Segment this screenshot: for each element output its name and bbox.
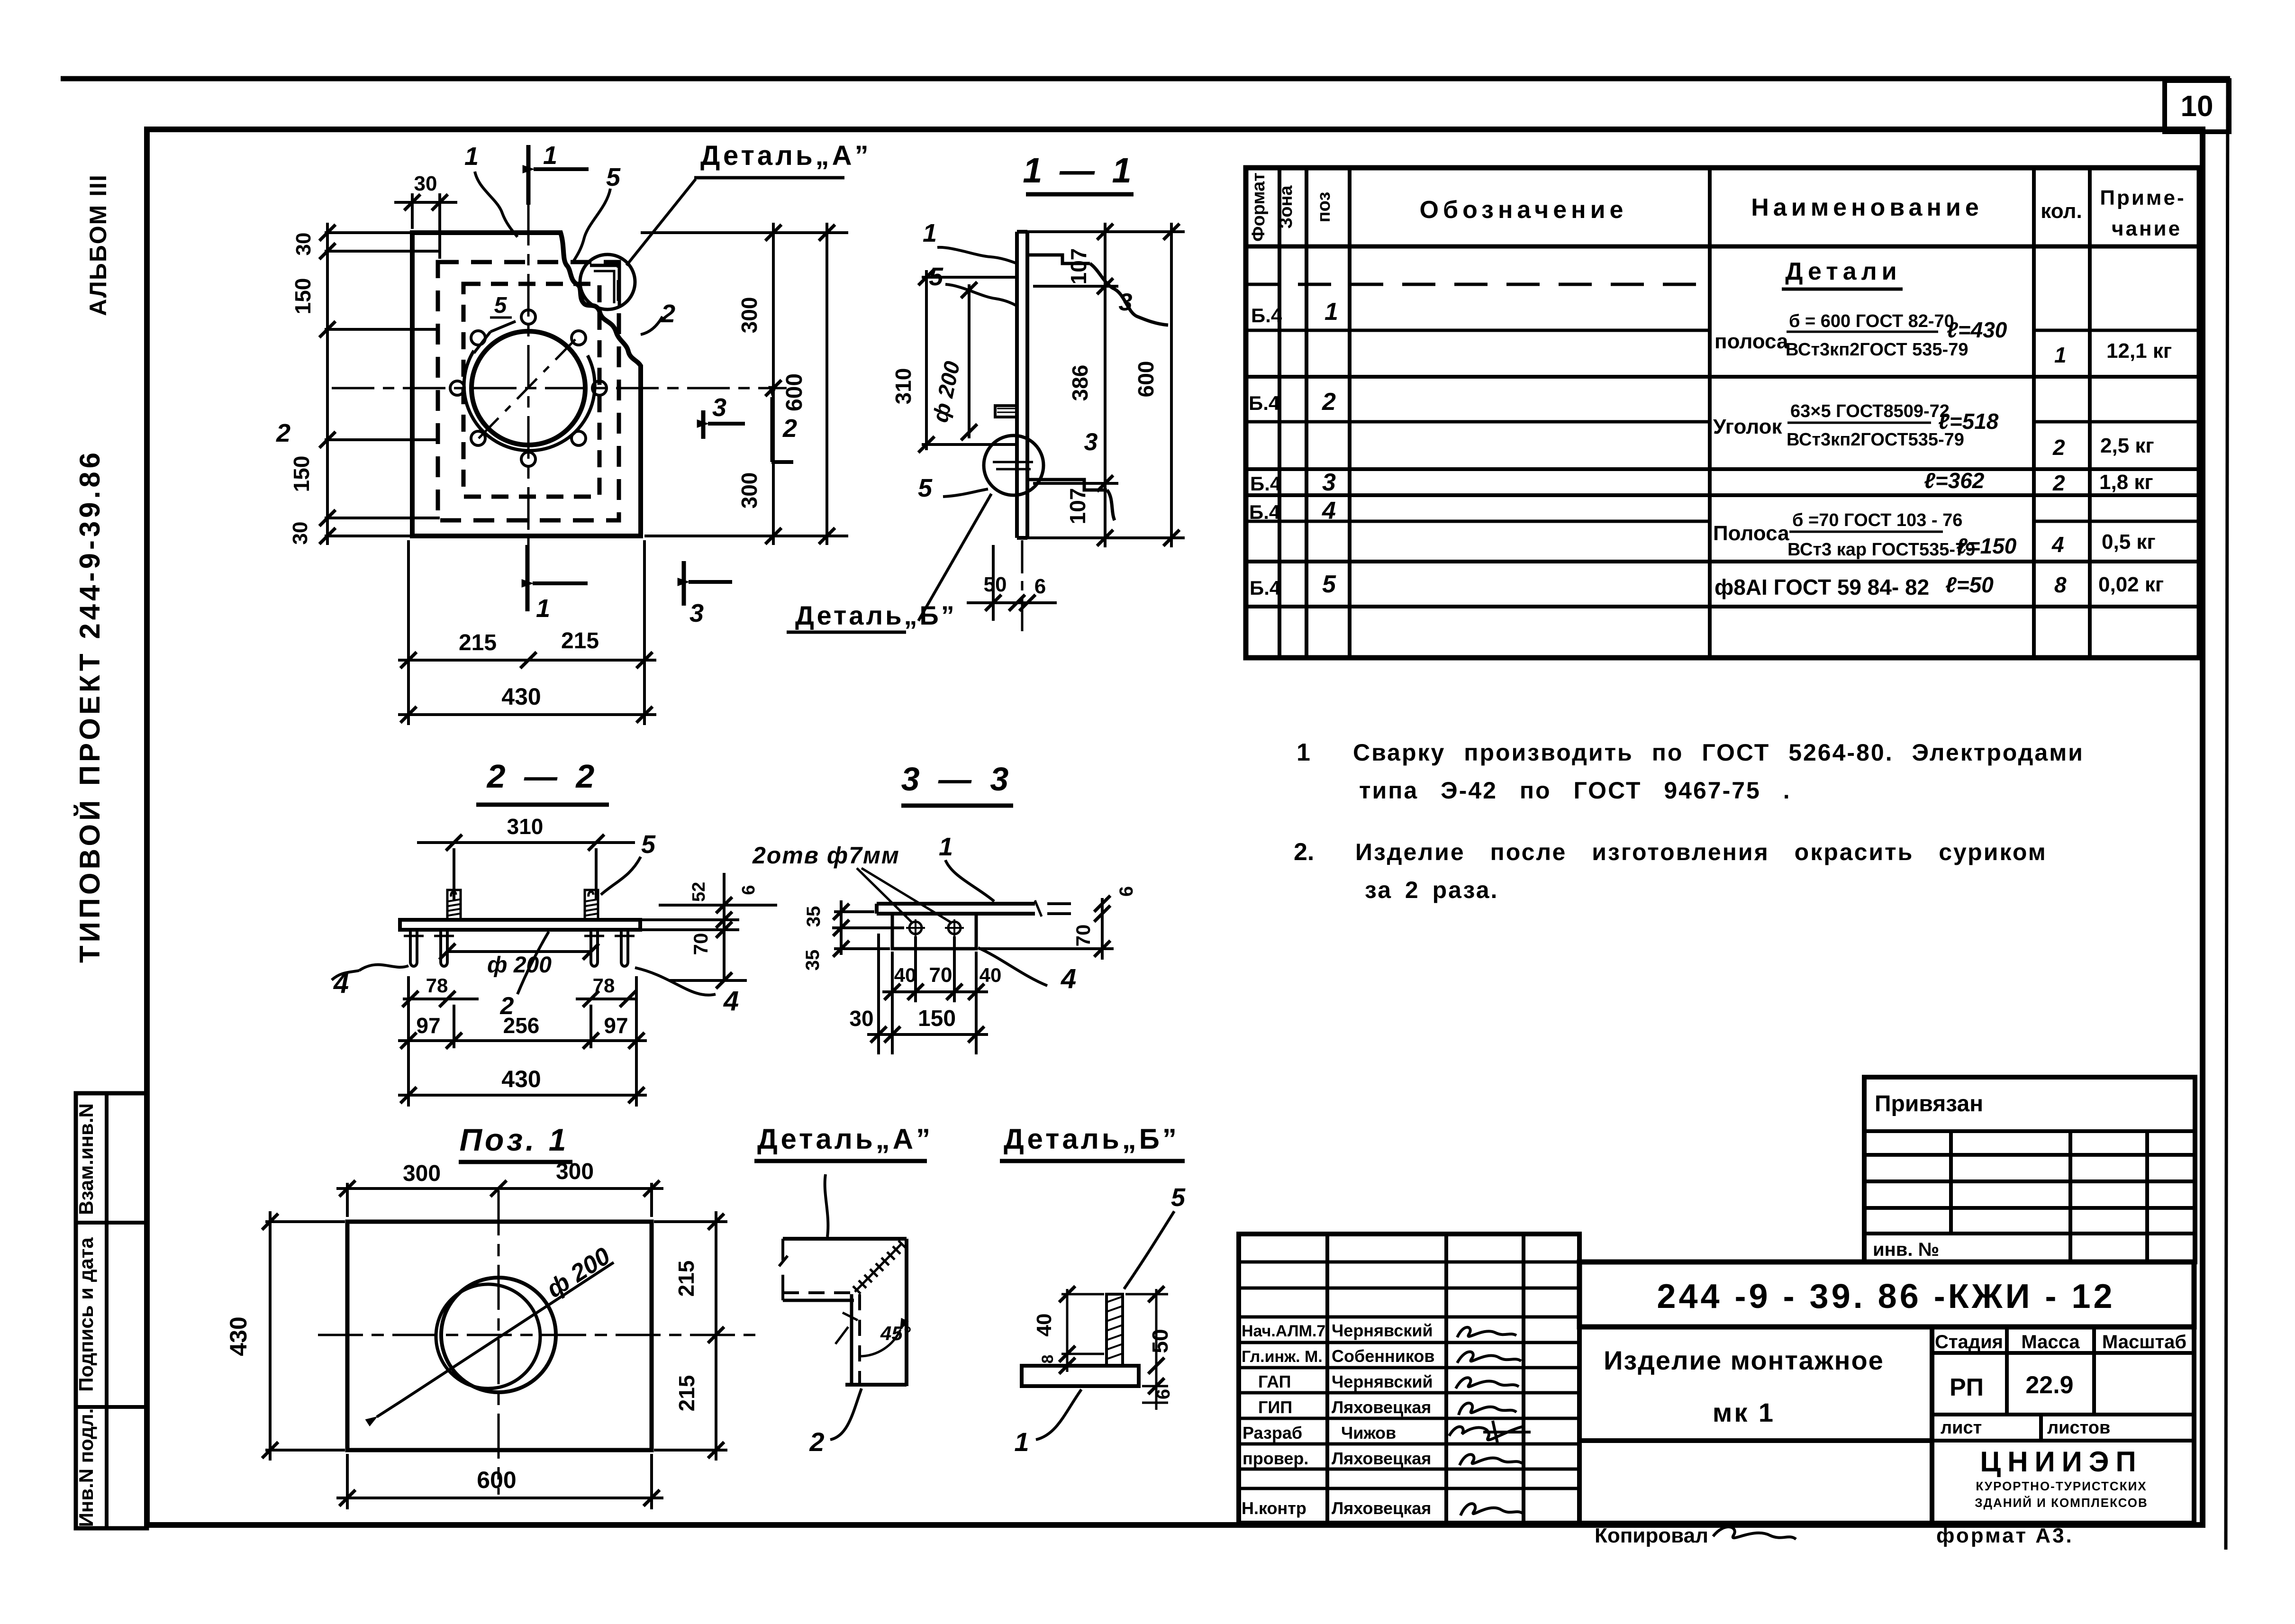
svg-text:30: 30 <box>292 233 315 256</box>
svg-text:150: 150 <box>918 1006 956 1031</box>
svg-text:310: 310 <box>891 368 916 405</box>
svg-text:Копировал: Копировал <box>1595 1524 1708 1547</box>
svg-text:мк 1: мк 1 <box>1713 1397 1775 1427</box>
svg-text:215: 215 <box>459 630 497 655</box>
svg-text:8: 8 <box>2054 572 2067 597</box>
svg-text:70: 70 <box>929 963 952 987</box>
svg-text:Собенников: Собенников <box>1332 1346 1435 1366</box>
svg-text:поз: поз <box>1314 192 1334 223</box>
svg-text:310: 310 <box>507 814 544 839</box>
svg-text:600: 600 <box>1134 361 1158 398</box>
svg-text:70: 70 <box>1072 925 1094 947</box>
svg-text:2: 2 <box>1322 388 1336 416</box>
svg-text:б =70 ГОСТ 103 - 76: б =70 ГОСТ 103 - 76 <box>1792 510 1962 530</box>
svg-text:1: 1 <box>1297 739 1310 766</box>
svg-text:430: 430 <box>501 683 541 710</box>
svg-text:Инв.N подл.: Инв.N подл. <box>75 1408 97 1527</box>
svg-text:Б.4: Б.4 <box>1250 577 1281 599</box>
svg-text:РП: РП <box>1950 1374 1984 1401</box>
svg-text:полоса: полоса <box>1714 330 1788 353</box>
svg-text:300: 300 <box>737 472 762 509</box>
svg-text:чание: чание <box>2112 217 2182 240</box>
svg-text:ф 200: ф 200 <box>487 953 552 978</box>
svg-text:1: 1 <box>1324 298 1338 326</box>
svg-text:4: 4 <box>2051 532 2064 557</box>
svg-text:215: 215 <box>674 1375 699 1412</box>
svg-text:40: 40 <box>980 964 1002 986</box>
svg-text:600: 600 <box>782 373 807 411</box>
svg-text:Б.4: Б.4 <box>1251 304 1282 327</box>
svg-text:35: 35 <box>803 906 824 927</box>
svg-text:2отв ф7мм: 2отв ф7мм <box>752 842 900 869</box>
svg-text:35: 35 <box>802 950 823 971</box>
svg-text:ГАП: ГАП <box>1258 1372 1291 1391</box>
svg-text:150: 150 <box>290 278 315 315</box>
svg-text:ℓ=362: ℓ=362 <box>1924 468 1985 493</box>
svg-text:40: 40 <box>894 964 916 986</box>
svg-text:Привязан: Привязан <box>1875 1091 1983 1116</box>
svg-text:2: 2 <box>2052 471 2065 495</box>
svg-text:Б.4: Б.4 <box>1249 392 1280 414</box>
svg-text:300: 300 <box>556 1159 594 1184</box>
svg-text:Приме-: Приме- <box>2100 186 2186 209</box>
svg-text:3 — 3: 3 — 3 <box>901 761 1014 798</box>
svg-text:12,1 кг: 12,1 кг <box>2106 339 2172 363</box>
svg-text:Ляховецкая: Ляховецкая <box>1332 1449 1431 1468</box>
svg-text:2: 2 <box>2052 435 2065 460</box>
svg-text:2.: 2. <box>1294 838 1314 866</box>
svg-text:КУРОРТНО-ТУРИСТСКИХ: КУРОРТНО-ТУРИСТСКИХ <box>1976 1479 2147 1493</box>
svg-text:386: 386 <box>1068 365 1092 401</box>
svg-text:30: 30 <box>414 172 437 195</box>
svg-text:формат А3.: формат А3. <box>1936 1524 2074 1547</box>
svg-text:Н.контр: Н.контр <box>1242 1498 1306 1518</box>
svg-text:8: 8 <box>1039 1355 1057 1364</box>
svg-text:за 2 раза.: за 2 раза. <box>1365 877 1498 903</box>
svg-text:Формат: Формат <box>1249 172 1269 242</box>
svg-text:2: 2 <box>809 1427 824 1457</box>
svg-text:ВСт3кп2ГОСТ535-79: ВСт3кп2ГОСТ535-79 <box>1787 430 1964 450</box>
svg-text:Наименование: Наименование <box>1751 194 1983 221</box>
svg-text:Ляховецкая: Ляховецкая <box>1332 1397 1431 1417</box>
svg-text:300: 300 <box>403 1161 441 1186</box>
svg-text:52: 52 <box>689 882 709 902</box>
svg-text:1: 1 <box>543 141 557 170</box>
svg-text:4: 4 <box>333 968 349 999</box>
svg-text:инв. №: инв. № <box>1873 1239 1939 1260</box>
svg-text:ℓ=50: ℓ=50 <box>1945 572 1994 597</box>
svg-text:2: 2 <box>276 419 290 447</box>
svg-text:5: 5 <box>641 830 656 859</box>
svg-text:ВСт3кп2ГОСТ 535-79: ВСт3кп2ГОСТ 535-79 <box>1786 340 1968 360</box>
svg-text:4: 4 <box>1322 497 1336 525</box>
svg-text:244 -9 - 39. 86 -КЖИ - 12: 244 -9 - 39. 86 -КЖИ - 12 <box>1657 1278 2115 1316</box>
svg-text:б = 600 ГОСТ 82-70: б = 600 ГОСТ 82-70 <box>1789 311 1954 331</box>
svg-text:1 — 1: 1 — 1 <box>1023 151 1135 190</box>
svg-text:97: 97 <box>604 1013 628 1038</box>
svg-text:2,5 кг: 2,5 кг <box>2100 434 2154 457</box>
svg-text:Поз. 1: Поз. 1 <box>460 1122 569 1157</box>
svg-text:Изделие после изготовления: Изделие после изготовления окрасить сури… <box>1355 839 2047 865</box>
svg-text:3: 3 <box>712 393 726 422</box>
svg-text:50: 50 <box>1148 1329 1172 1353</box>
svg-text:3: 3 <box>689 599 704 627</box>
svg-text:78: 78 <box>593 974 615 997</box>
svg-text:ЗДАНИЙ И КОМПЛЕКСОВ: ЗДАНИЙ И КОМПЛЕКСОВ <box>1975 1496 2148 1510</box>
svg-text:70: 70 <box>689 933 712 955</box>
svg-text:215: 215 <box>674 1261 698 1297</box>
svg-text:97: 97 <box>416 1013 440 1038</box>
svg-text:Ляховецкая: Ляховецкая <box>1332 1498 1431 1518</box>
svg-text:50: 50 <box>984 573 1007 596</box>
svg-text:30: 30 <box>849 1006 873 1031</box>
svg-text:22.9: 22.9 <box>2025 1371 2073 1399</box>
svg-text:Нач.АЛМ.7: Нач.АЛМ.7 <box>1242 1322 1325 1340</box>
svg-text:лист: лист <box>1941 1418 1982 1438</box>
svg-text:Взам.инв.N: Взам.инв.N <box>75 1103 97 1215</box>
svg-text:5: 5 <box>494 293 508 318</box>
svg-text:256: 256 <box>503 1013 540 1038</box>
svg-text:Чернявский: Чернявский <box>1332 1321 1433 1340</box>
svg-text:3: 3 <box>1119 289 1133 316</box>
svg-text:Деталь„Б”: Деталь„Б” <box>795 600 957 630</box>
svg-text:Полоса: Полоса <box>1713 522 1789 545</box>
svg-text:6: 6 <box>739 885 759 895</box>
svg-text:ГИП: ГИП <box>1258 1397 1292 1417</box>
svg-text:10: 10 <box>2181 90 2213 123</box>
svg-text:Масса: Масса <box>2021 1332 2080 1352</box>
svg-text:5: 5 <box>1322 571 1336 598</box>
svg-text:6: 6 <box>1034 575 1046 598</box>
svg-text:Гл.инж. М.: Гл.инж. М. <box>1242 1348 1323 1366</box>
svg-text:Деталь„Б”: Деталь„Б” <box>1004 1123 1179 1155</box>
svg-text:листов: листов <box>2047 1418 2110 1438</box>
svg-text:Деталь„А”: Деталь„А” <box>757 1123 933 1155</box>
svg-text:6: 6 <box>1153 1389 1174 1399</box>
svg-text:Изделие монтажное: Изделие монтажное <box>1604 1345 1884 1375</box>
svg-text:1: 1 <box>2054 343 2067 367</box>
svg-text:Детали: Детали <box>1785 258 1901 285</box>
svg-text:провер.: провер. <box>1243 1449 1308 1468</box>
svg-text:0,02 кг: 0,02 кг <box>2098 573 2164 596</box>
svg-text:ТИПОВОЙ ПРОЕКТ 244-9-39.86: ТИПОВОЙ ПРОЕКТ 244-9-39.86 <box>74 449 106 963</box>
svg-text:Чижов: Чижов <box>1341 1423 1396 1443</box>
svg-text:430: 430 <box>501 1066 541 1092</box>
svg-text:1: 1 <box>464 142 479 171</box>
svg-text:5: 5 <box>918 474 933 502</box>
svg-text:2: 2 <box>661 299 675 328</box>
svg-text:1: 1 <box>939 833 953 861</box>
svg-text:3: 3 <box>1322 469 1336 496</box>
svg-text:Разраб: Разраб <box>1243 1423 1302 1443</box>
svg-text:1: 1 <box>923 219 937 247</box>
svg-text:3: 3 <box>1084 428 1098 456</box>
svg-text:4: 4 <box>1061 963 1076 994</box>
svg-text:Сварку производить по Г: Сварку производить по ГОСТ 5264-80. Элек… <box>1353 739 2084 766</box>
svg-text:107: 107 <box>1066 248 1091 285</box>
svg-text:ℓ=150: ℓ=150 <box>1956 534 2017 558</box>
svg-text:Стадия: Стадия <box>1935 1332 2003 1352</box>
svg-text:40: 40 <box>1033 1314 1056 1337</box>
svg-text:1: 1 <box>536 594 550 623</box>
svg-text:300: 300 <box>737 297 762 334</box>
svg-text:ВСт3 кар ГОСТ535-79: ВСт3 кар ГОСТ535-79 <box>1787 540 1975 560</box>
svg-text:0,5 кг: 0,5 кг <box>2102 530 2156 553</box>
svg-text:78: 78 <box>426 974 448 997</box>
svg-text:2 — 2: 2 — 2 <box>486 758 599 795</box>
svg-text:кол.: кол. <box>2041 200 2082 223</box>
svg-text:Обозначение: Обозначение <box>1420 196 1628 224</box>
svg-text:ф8АI ГОСТ 59 84- 82: ф8АI ГОСТ 59 84- 82 <box>1714 575 1929 599</box>
svg-text:1,8 кг: 1,8 кг <box>2099 471 2153 494</box>
svg-text:типа Э-42 по ГОСТ 9467-75: типа Э-42 по ГОСТ 9467-75 . <box>1359 777 1791 804</box>
svg-text:Подпись и дата: Подпись и дата <box>75 1237 97 1392</box>
svg-text:5: 5 <box>606 163 621 191</box>
svg-text:107: 107 <box>1065 488 1090 525</box>
svg-text:Масштаб: Масштаб <box>2102 1332 2186 1352</box>
svg-text:ЦНИИЭП: ЦНИИЭП <box>1980 1446 2142 1478</box>
svg-text:63×5 ГОСТ8509-72: 63×5 ГОСТ8509-72 <box>1790 401 1950 421</box>
svg-text:Чернявский: Чернявский <box>1332 1372 1433 1391</box>
svg-text:600: 600 <box>477 1467 516 1493</box>
svg-text:5: 5 <box>929 263 943 291</box>
svg-text:2: 2 <box>782 414 797 443</box>
svg-text:Деталь„А”: Деталь„А” <box>700 140 871 171</box>
svg-text:Зона: Зона <box>1276 185 1296 229</box>
svg-text:4: 4 <box>723 986 739 1016</box>
svg-text:430: 430 <box>225 1316 252 1356</box>
svg-text:Б.4: Б.4 <box>1249 501 1280 523</box>
svg-text:ℓ=430: ℓ=430 <box>1947 318 2007 342</box>
svg-text:Уголок: Уголок <box>1713 415 1782 438</box>
svg-text:АЛЬБОМ III: АЛЬБОМ III <box>85 174 111 316</box>
svg-text:ℓ=518: ℓ=518 <box>1938 409 1999 434</box>
svg-text:Б.4: Б.4 <box>1250 472 1281 495</box>
svg-text:45°: 45° <box>880 1322 911 1344</box>
svg-text:30: 30 <box>289 522 312 545</box>
svg-text:215: 215 <box>561 628 599 653</box>
svg-text:5: 5 <box>1171 1183 1186 1212</box>
svg-text:6: 6 <box>1116 886 1137 897</box>
svg-text:1: 1 <box>1014 1427 1029 1457</box>
svg-text:150: 150 <box>289 456 314 492</box>
